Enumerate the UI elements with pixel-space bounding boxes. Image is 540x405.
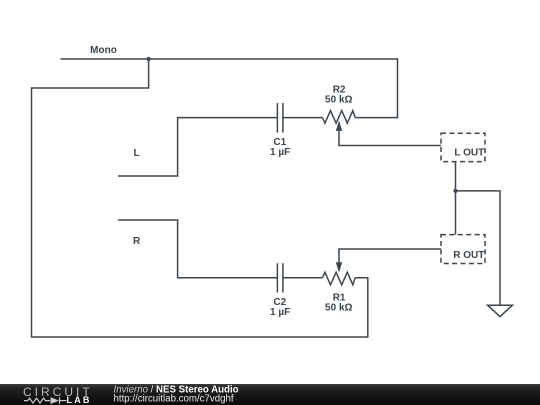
wire C2 to R1 — [283, 277, 323, 279]
wire L OUT bottom to junction — [455, 162, 457, 191]
svg-text:50 kΩ: 50 kΩ — [325, 303, 352, 314]
R OUT terminal box — [441, 235, 485, 264]
wire L input — [118, 118, 277, 176]
svg-text:R: R — [133, 236, 141, 247]
potentiometer R2 body — [322, 111, 355, 124]
footer bar — [0, 384, 540, 405]
svg-text:R OUT: R OUT — [453, 250, 484, 261]
capacitor C2 — [277, 263, 283, 292]
wire right drop from Mono to R2 right terminal — [355, 58, 397, 117]
svg-text:L: L — [133, 148, 139, 159]
svg-text:1 µF: 1 µF — [270, 307, 290, 318]
svg-text:http://circuitlab.com/c7vdghf: http://circuitlab.com/c7vdghf — [114, 393, 234, 404]
wire Mono branch down-left-down-bottom loop to R1 right terminal — [32, 59, 368, 337]
node junction dot below L OUT — [453, 189, 457, 193]
svg-text:LAB: LAB — [67, 395, 92, 405]
wire junction to R OUT top — [455, 191, 457, 235]
capacitor C1 — [277, 103, 283, 133]
wire Mono top horizontal — [61, 58, 398, 60]
wire R input — [118, 220, 277, 278]
wire C1 to R2 — [283, 117, 323, 119]
potentiometer R1 body — [322, 272, 355, 285]
potentiometer R2 wiper arrow — [336, 121, 342, 131]
wire R1 wiper to R OUT — [339, 249, 441, 264]
svg-text:50 kΩ: 50 kΩ — [325, 95, 352, 106]
potentiometer R1 wiper arrow — [336, 262, 342, 272]
footer logo resistor-diode doodle — [24, 397, 67, 404]
svg-text:1 µF: 1 µF — [270, 147, 290, 158]
svg-text:Mono: Mono — [90, 45, 117, 56]
wire R2 wiper to L OUT — [339, 131, 441, 146]
node junction dot on Mono wire — [147, 57, 151, 61]
L OUT terminal box — [441, 133, 485, 161]
ground — [488, 305, 513, 316]
svg-text:L OUT: L OUT — [454, 148, 484, 159]
wire junction to ground drop — [456, 191, 501, 305]
